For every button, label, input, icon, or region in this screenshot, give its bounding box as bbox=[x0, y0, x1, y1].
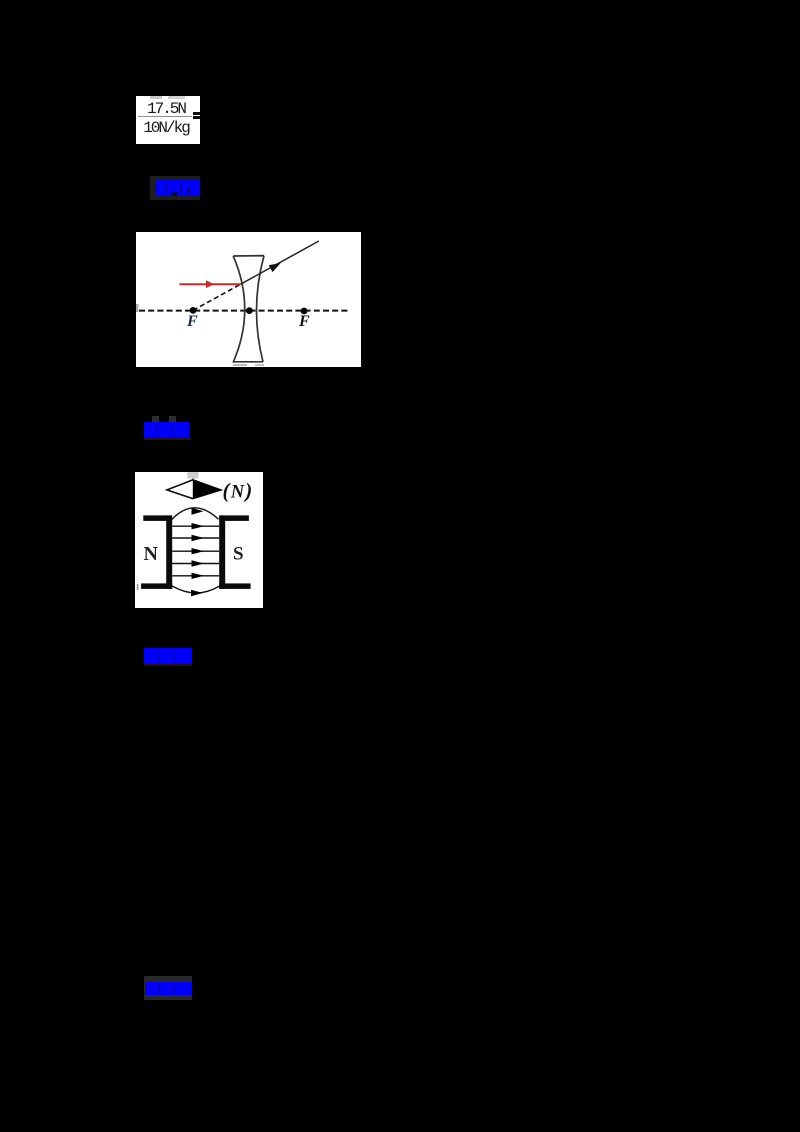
dashed ray F to lens bbox=[193, 284, 241, 310]
gray tick left edge bbox=[137, 584, 139, 590]
field line 3 arrowhead bbox=[192, 535, 205, 541]
right pole bottom bar bbox=[219, 583, 250, 589]
field line 2 bbox=[172, 525, 219, 527]
field line 5 bbox=[172, 563, 219, 565]
left pole bottom bar bbox=[141, 583, 172, 589]
dot left F bbox=[190, 307, 197, 314]
svg-text:N: N bbox=[144, 543, 159, 565]
bottom field line arrowhead bbox=[191, 590, 203, 597]
top field line arrowhead bbox=[192, 508, 204, 515]
bottom curved field line bbox=[172, 586, 219, 593]
compass needle outline (left half white) bbox=[167, 480, 221, 499]
field line 5 arrowhead bbox=[192, 560, 205, 566]
concave lens bbox=[233, 256, 264, 362]
field line 4 bbox=[172, 550, 219, 552]
dot right F bbox=[301, 308, 308, 315]
principal axis dashed bbox=[139, 310, 350, 312]
refracted ray arrowhead bbox=[269, 260, 283, 273]
field line 4 arrowhead bbox=[192, 548, 205, 554]
blue label 4 bbox=[145, 982, 192, 995]
svg-text:F: F bbox=[298, 313, 310, 330]
gray block top bbox=[187, 472, 198, 479]
svg-text:(N): (N) bbox=[223, 479, 254, 503]
right pole top bar bbox=[219, 515, 249, 521]
gray smudge top of fraction box bbox=[150, 96, 162, 99]
red arrowhead bbox=[206, 280, 215, 288]
fraction denominator 10N/kg bbox=[136, 120, 196, 137]
equals sign bbox=[193, 112, 201, 115]
left pole vertical bar bbox=[166, 515, 172, 589]
dot center bbox=[246, 307, 253, 314]
field line 2 arrowhead bbox=[192, 523, 205, 529]
right pole vertical bar bbox=[219, 515, 225, 589]
lens diagram white box bbox=[136, 232, 361, 367]
red incident ray bbox=[180, 283, 241, 285]
blue label 1 halo bbox=[150, 176, 200, 200]
fraction white box bbox=[136, 96, 200, 144]
refracted solid ray bbox=[241, 241, 319, 284]
top curved field line bbox=[172, 508, 219, 520]
field line 6 arrowhead bbox=[192, 573, 205, 579]
gray smudge bottom of lens box bbox=[233, 364, 247, 367]
blue label 2 bbox=[152, 416, 159, 423]
pivot line bbox=[192, 478, 194, 482]
svg-text:F: F bbox=[186, 313, 198, 330]
svg-text:S: S bbox=[233, 544, 244, 565]
field line 3 bbox=[172, 537, 219, 539]
gray tick left edge bbox=[136, 304, 139, 312]
compass needle right half filled bbox=[193, 480, 221, 499]
blue label 1 bbox=[155, 180, 200, 196]
fraction numerator 17.5N bbox=[137, 101, 195, 117]
blue label 3 bbox=[144, 648, 192, 664]
left pole top bar bbox=[143, 515, 172, 521]
fraction bar bbox=[138, 116, 192, 118]
blue label 4 halo bbox=[144, 976, 192, 1000]
magnet diagram white box bbox=[135, 472, 263, 608]
field line 6 bbox=[172, 575, 219, 577]
